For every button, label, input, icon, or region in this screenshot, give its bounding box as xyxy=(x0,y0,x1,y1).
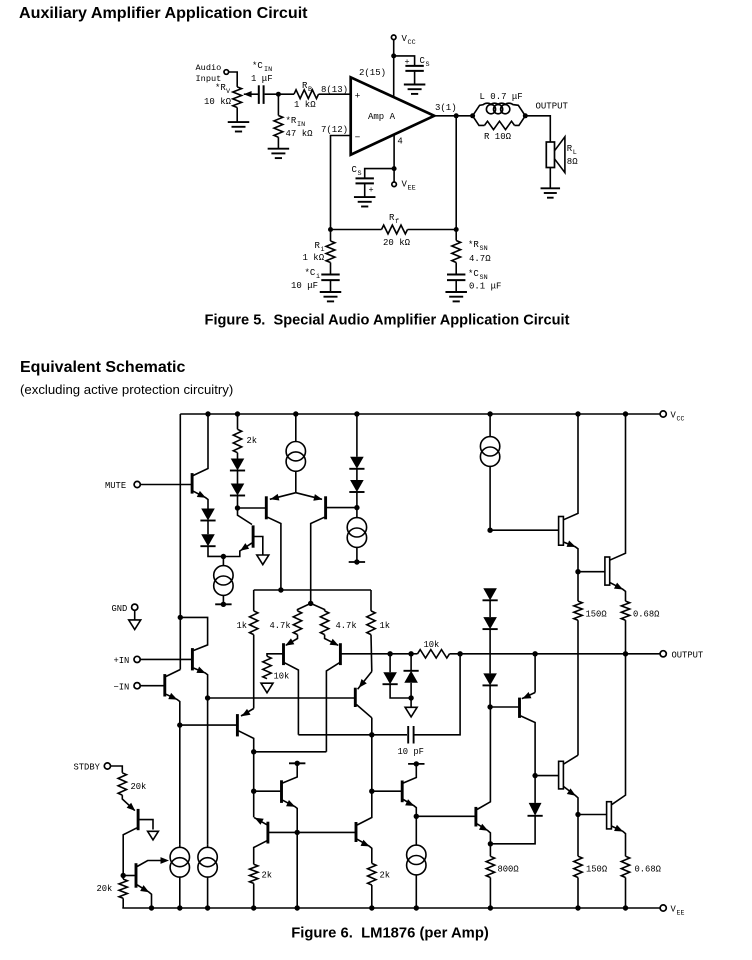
transistor Q1 emitter xyxy=(193,491,208,508)
wire node E to Q8 xyxy=(254,790,281,792)
wire D5c-D6c xyxy=(489,600,491,617)
current source CS2 xyxy=(356,508,358,518)
svg-text:10k: 10k xyxy=(424,640,440,650)
wire Q7 base xyxy=(180,724,237,726)
wire pot wiper to CIN xyxy=(251,93,259,95)
transistor Q19 emitter xyxy=(477,824,490,844)
capacitor Ci xyxy=(321,274,339,276)
wire node I to Q18U xyxy=(578,571,605,573)
wire op-amp pin4 to VEE xyxy=(393,135,395,182)
node rail 297 xyxy=(295,905,300,910)
resistor RIN xyxy=(277,94,279,115)
diode D10 xyxy=(534,776,536,803)
transistor Q9 collector xyxy=(254,841,267,865)
node out 535 xyxy=(532,651,537,656)
svg-text:GND: GND xyxy=(112,604,128,614)
transistor Q11 emitter xyxy=(137,885,151,908)
node diode left xyxy=(387,651,392,656)
transistor Q14 collector xyxy=(403,764,416,783)
svg-text:S: S xyxy=(358,170,362,178)
wire 2k mid to rail xyxy=(371,885,373,908)
node M xyxy=(121,873,126,878)
svg-text:Auxiliary Amplifier Applicatio: Auxiliary Amplifier Application Circuit xyxy=(19,4,308,22)
node out 626 xyxy=(623,651,628,656)
capacitor CS top xyxy=(405,65,423,67)
svg-text:4: 4 xyxy=(397,137,402,147)
transistor Q18U base rect xyxy=(605,557,610,585)
svg-text:10 μF: 10 μF xyxy=(291,281,318,291)
node Q17 rail xyxy=(575,411,580,416)
wire tent left xyxy=(298,603,311,611)
svg-text:*R: *R xyxy=(215,83,226,93)
transistor Q13 collector xyxy=(357,718,372,825)
node rail 416 xyxy=(414,905,419,910)
diode D1 xyxy=(201,509,215,521)
node row590 xyxy=(278,587,283,592)
wire node F left xyxy=(269,831,297,833)
svg-text:7(12): 7(12) xyxy=(321,125,348,135)
resistor 150 upper xyxy=(577,572,579,601)
wire CS top to ground xyxy=(414,71,416,85)
wire 20k bottom to rail xyxy=(122,898,124,908)
wire D6p to node C xyxy=(356,492,358,508)
transistor Q5 base bar xyxy=(282,643,285,665)
transistor Q6 base bar xyxy=(339,643,342,665)
transistor Q2 collector xyxy=(254,537,263,555)
op-amp Amp A xyxy=(351,77,435,154)
wire VCC to op-amp xyxy=(393,40,395,98)
node CS5 rail xyxy=(177,905,182,910)
svg-text:1 kΩ: 1 kΩ xyxy=(303,253,325,263)
terminal VCC fig6 xyxy=(660,411,666,417)
wire node to Q15 xyxy=(490,706,518,708)
wire Qp tail xyxy=(207,698,209,844)
transistor Q4 emitter xyxy=(296,493,322,500)
svg-text:20k: 20k xyxy=(131,782,147,792)
wire CS2 to stub xyxy=(356,547,358,562)
resistor 0.68 lower xyxy=(621,856,629,877)
ground speaker xyxy=(541,187,561,189)
svg-text:−IN: −IN xyxy=(114,682,130,692)
wire 800 to rail xyxy=(489,878,491,909)
transistor Q5 collector xyxy=(285,663,299,735)
ground arrow 10k xyxy=(261,683,273,693)
wire node E2 to Q14 xyxy=(372,790,401,792)
wire 0.68 lower to rail xyxy=(625,878,627,909)
node bus left xyxy=(205,695,210,700)
terminal MUTE xyxy=(134,481,140,487)
svg-text:Equivalent Schematic: Equivalent Schematic xyxy=(20,359,185,376)
stub Q8 collector xyxy=(289,762,305,764)
transistor Q10 base lead xyxy=(139,820,153,830)
ground arrow Q2 xyxy=(257,555,269,565)
diode D4 xyxy=(231,484,245,496)
node L right xyxy=(523,113,528,118)
svg-text:2k: 2k xyxy=(247,436,258,446)
diode D8 antiparallel xyxy=(389,654,391,672)
terminal OUTPUT xyxy=(660,651,666,657)
wire input to pot xyxy=(229,72,238,87)
node L left xyxy=(470,113,475,118)
wire node D right xyxy=(254,751,327,753)
capacitor 10pF xyxy=(407,726,409,744)
ground RIN xyxy=(268,148,290,150)
stub gnd CS2 xyxy=(349,561,365,563)
transistor Q4 collector xyxy=(311,517,325,603)
node out 460 xyxy=(457,651,462,656)
svg-text:R 10Ω: R 10Ω xyxy=(484,132,512,142)
transistor Q6 collector xyxy=(326,663,339,752)
wire left vertical xyxy=(179,414,181,670)
wire Q6 base to out rail xyxy=(342,653,391,655)
svg-text:10k: 10k xyxy=(274,672,290,682)
terminal STDBY xyxy=(104,763,110,769)
ground Ci xyxy=(320,291,342,293)
node Q18U rail xyxy=(623,411,628,416)
resistor RSN xyxy=(455,230,457,241)
svg-text:2(15): 2(15) xyxy=(359,68,386,78)
wire node F down xyxy=(296,832,298,908)
current source CS mute xyxy=(222,557,224,566)
transistor Q12 collector xyxy=(356,705,371,718)
svg-text:1k: 1k xyxy=(237,621,248,631)
svg-text:47 kΩ: 47 kΩ xyxy=(286,129,314,139)
terminal audio input xyxy=(224,70,229,75)
wire node G down xyxy=(415,816,417,845)
node rail 253 xyxy=(251,905,256,910)
resistor 4.7k left xyxy=(293,611,301,635)
svg-text:*R: *R xyxy=(286,116,297,126)
svg-text:*C: *C xyxy=(305,268,316,278)
transistor Q12 base bar xyxy=(354,688,357,707)
node diode right xyxy=(408,651,413,656)
wire CS bottom to ground xyxy=(364,183,366,197)
wire cap to outrail xyxy=(414,654,461,735)
ground pot xyxy=(228,121,250,123)
wire to CS top xyxy=(394,56,415,66)
transistor Q7 collector xyxy=(239,731,254,752)
node comp mid xyxy=(369,732,374,737)
wire outrail c xyxy=(450,653,661,655)
transistor Q5 base lead xyxy=(267,654,282,656)
transistor Q11 base bar xyxy=(135,863,138,888)
node rail 625 xyxy=(623,905,628,910)
stub Q14 collector xyxy=(408,763,424,765)
node VCC CS xyxy=(391,53,396,58)
transistor Q9 emitter xyxy=(254,818,267,825)
svg-text:L: L xyxy=(573,149,577,157)
node rail 371 xyxy=(369,905,374,910)
svg-text:1 kΩ: 1 kΩ xyxy=(294,100,316,110)
svg-text:0.1 μF: 0.1 μF xyxy=(469,282,501,292)
node Q7 base xyxy=(177,722,182,727)
resistor RB xyxy=(294,90,319,99)
node K xyxy=(532,773,537,778)
transistor Q1 collector xyxy=(193,414,208,476)
svg-text:0.68Ω: 0.68Ω xyxy=(633,610,660,620)
transistor Qn base bar xyxy=(163,674,166,696)
diode D6p xyxy=(350,480,364,492)
transistor Q15 collector xyxy=(521,716,536,776)
transistor Q3 collector xyxy=(267,517,281,590)
wire +IN xyxy=(140,658,191,660)
node rail 578 xyxy=(575,905,580,910)
wire GND stem xyxy=(134,610,136,620)
node E xyxy=(251,789,256,794)
node B xyxy=(235,505,240,510)
resistor 20k bottom xyxy=(122,876,124,880)
inductor L xyxy=(473,103,526,116)
ground CS bottom xyxy=(354,196,376,198)
transistor Q10 base bar xyxy=(137,809,140,830)
wire outrail b xyxy=(411,653,417,655)
wire row590 to 1k right xyxy=(370,590,372,611)
svg-text:10 pF: 10 pF xyxy=(398,747,424,757)
wire node J to Q18L xyxy=(578,814,606,816)
node 2k rail xyxy=(235,411,240,416)
transistor Qp emitter xyxy=(194,668,208,698)
svg-text:EE: EE xyxy=(408,185,416,193)
wire 2k to D3 xyxy=(237,453,239,459)
transistor Q18L emitter xyxy=(611,826,625,856)
transistor Q17 base rect xyxy=(559,517,564,546)
wire node B down xyxy=(238,508,253,525)
transistor Q16 collector xyxy=(563,755,578,764)
transistor Q1 base bar xyxy=(191,473,194,494)
transistor Q18L base rect xyxy=(607,802,612,829)
wire CS6 to rail xyxy=(207,877,209,908)
current source CS5 xyxy=(179,844,181,847)
wire tent right xyxy=(311,603,325,611)
transistor Q3 emitter xyxy=(270,493,296,500)
transistor Q10 collector xyxy=(123,828,137,876)
wire feedback down xyxy=(455,116,457,230)
stub gnd CS mute xyxy=(215,603,231,605)
svg-text:OUTPUT: OUTPUT xyxy=(536,102,569,112)
svg-text:CC: CC xyxy=(677,416,685,423)
node F xyxy=(295,830,300,835)
transistor Q16 base rect xyxy=(559,761,564,789)
pot wiper arrow xyxy=(244,91,252,97)
transistor Q7 emitter xyxy=(241,709,254,717)
terminal GND xyxy=(132,604,138,610)
wire 150 lower to rail xyxy=(577,878,579,909)
transistor Q2 emitter xyxy=(223,543,252,557)
svg-text:Figure 5. Special Audio Ampli: Figure 5. Special Audio Amplifier Applic… xyxy=(205,313,570,329)
svg-text:4.7Ω: 4.7Ω xyxy=(469,254,491,264)
capacitor CS bottom xyxy=(356,177,374,179)
wire node B to Q3 base xyxy=(238,507,266,509)
wire 1k left down xyxy=(253,635,255,709)
node tent xyxy=(308,601,313,606)
resistor Rf xyxy=(382,225,408,234)
svg-text:i: i xyxy=(316,273,320,281)
svg-text:8(13): 8(13) xyxy=(321,85,348,95)
svg-text:10 kΩ: 10 kΩ xyxy=(204,97,232,107)
wire VEE node to CS bottom xyxy=(365,169,394,179)
svg-text:(excluding active protection c: (excluding active protection circuitry) xyxy=(20,382,233,397)
node Rf right xyxy=(454,227,459,232)
svg-text:EE: EE xyxy=(677,910,685,917)
svg-text:150Ω: 150Ω xyxy=(586,610,608,620)
svg-text:Audio: Audio xyxy=(196,63,222,73)
transistor Qn collector xyxy=(166,670,180,677)
resistor 10k vert xyxy=(263,656,271,679)
resistor 2k left xyxy=(250,864,258,883)
wire RSN to CSN xyxy=(455,263,457,275)
wire bus xyxy=(208,697,355,699)
wire output to speaker xyxy=(525,116,550,142)
potentiometer RV xyxy=(233,87,242,108)
diode D6c xyxy=(483,617,497,629)
transistor Qp base bar xyxy=(191,648,194,670)
node C xyxy=(354,505,359,510)
ground CS top xyxy=(404,84,426,86)
transistor Q15 base bar xyxy=(518,698,521,718)
node Q11 rail xyxy=(149,905,154,910)
node H xyxy=(487,528,492,533)
resistor 1k left xyxy=(250,611,258,635)
resistor Ri xyxy=(330,230,332,242)
wire D4 to node B xyxy=(237,496,239,509)
transistor Q17 collector xyxy=(563,414,578,520)
resistor 150 lower xyxy=(577,815,579,857)
svg-text:MUTE: MUTE xyxy=(105,481,126,491)
transistor Q15 emitter xyxy=(522,693,535,699)
diode D7c xyxy=(483,673,497,685)
resistor 2k mid xyxy=(368,863,376,885)
current source CS6 xyxy=(207,844,209,847)
node A xyxy=(221,554,226,559)
diode D5p xyxy=(350,457,364,469)
wire Rf right xyxy=(408,229,457,231)
transistor Q13 base bar xyxy=(355,822,358,842)
wire minus input xyxy=(331,136,351,230)
svg-text:V: V xyxy=(226,88,231,96)
wire D7c to node xyxy=(489,685,491,707)
wire node M to Q11 xyxy=(123,875,135,877)
transistor Q8 base bar xyxy=(280,780,283,803)
svg-text:2k: 2k xyxy=(262,871,273,881)
transistor Q11 collector xyxy=(137,861,166,867)
diode D3 xyxy=(231,459,245,471)
ground arrow diode pair xyxy=(405,707,417,717)
diode D9 antiparallel xyxy=(410,654,412,671)
transistor Q3 base bar xyxy=(265,496,268,519)
transistor Q17 emitter xyxy=(563,542,578,572)
wire D6c down xyxy=(489,629,491,673)
current source CS3 xyxy=(480,437,499,456)
resistor 4.7k right xyxy=(320,611,328,635)
svg-text:20 kΩ: 20 kΩ xyxy=(383,238,411,248)
wire STDBY xyxy=(111,766,123,773)
svg-text:*C: *C xyxy=(468,269,479,279)
transistor Q4 base bar xyxy=(324,496,327,519)
wire speaker to ground xyxy=(549,168,551,189)
ground arrow Q10 xyxy=(148,831,159,840)
svg-text:CC: CC xyxy=(408,39,416,47)
transistor Q13 emitter xyxy=(357,839,372,863)
wire outrail a xyxy=(390,653,411,655)
svg-text:4.7k: 4.7k xyxy=(270,621,291,631)
node comp mid2 xyxy=(369,789,374,794)
wire 2k left to rail xyxy=(253,883,255,908)
svg-text:*R: *R xyxy=(468,240,479,250)
svg-text:IN: IN xyxy=(297,121,305,129)
transistor Q18U collector xyxy=(610,414,626,560)
svg-text:800Ω: 800Ω xyxy=(498,865,520,875)
wire Q4 base to node C xyxy=(327,507,357,509)
svg-text:Figure 6. LM1876 (per Amp): Figure 6. LM1876 (per Amp) xyxy=(291,926,489,942)
transistor Q8 collector xyxy=(283,763,298,783)
node D xyxy=(251,749,256,754)
svg-text:STDBY: STDBY xyxy=(74,763,101,773)
svg-text:OUTPUT: OUTPUT xyxy=(672,650,704,660)
transistor Qn emitter xyxy=(166,694,180,844)
diode D5c xyxy=(483,588,497,600)
wire CS5 to rail xyxy=(179,877,181,908)
transistor Q19 collector xyxy=(477,707,490,810)
speaker RL xyxy=(546,142,554,168)
resistor R parallel xyxy=(473,116,485,126)
resistor 800 xyxy=(489,844,491,857)
resistor 1k right xyxy=(367,611,375,635)
wire Q5 collector row xyxy=(298,734,407,736)
transistor Q6 emitter xyxy=(325,635,339,646)
node diode pair bottom xyxy=(408,695,413,700)
wire pot to ground xyxy=(236,108,238,123)
svg-text:f: f xyxy=(395,218,399,226)
svg-text:+: + xyxy=(369,185,374,195)
wire CSN to ground xyxy=(455,280,457,292)
transistor Q18U emitter xyxy=(610,582,626,601)
transistor Q16 emitter xyxy=(563,786,578,814)
svg-text:S: S xyxy=(426,61,430,69)
terminal VEE fig6 xyxy=(660,905,666,911)
wire node G to Q19 xyxy=(416,815,475,817)
wire node F to Q13 xyxy=(297,831,355,833)
svg-text:Amp A: Amp A xyxy=(368,112,396,122)
VCC rail xyxy=(180,413,660,415)
wire D1-D2 xyxy=(207,521,209,535)
current source CS4 xyxy=(407,845,426,864)
transistor Q19 base bar xyxy=(474,807,477,827)
wire rail to CS3 xyxy=(489,414,491,437)
svg-text:IN: IN xyxy=(264,66,272,74)
wire CS1 to emitters xyxy=(295,471,297,492)
wire -IN xyxy=(140,685,163,687)
wire 0.68 upper down xyxy=(625,620,627,654)
node input xyxy=(276,92,281,97)
wire 590 row xyxy=(254,589,371,591)
resistor 10k out xyxy=(418,650,450,658)
wire Rf left xyxy=(331,229,382,231)
node output amp xyxy=(454,113,459,118)
svg-text:*C: *C xyxy=(252,61,263,71)
node rail 490 xyxy=(488,905,493,910)
wire Ri to Ci xyxy=(330,263,332,275)
wire CS3 to node H xyxy=(489,466,491,530)
wire CS4 to rail xyxy=(415,875,417,908)
node L800 xyxy=(488,841,493,846)
svg-text:−: − xyxy=(355,132,361,143)
node CS6 rail xyxy=(205,905,210,910)
current source CS1 xyxy=(286,442,305,461)
transistor Q2 base bar xyxy=(252,525,255,547)
wire CIN to node xyxy=(265,93,294,95)
wire RB to op-amp xyxy=(319,93,351,95)
wire node H to Q17 xyxy=(490,529,558,531)
